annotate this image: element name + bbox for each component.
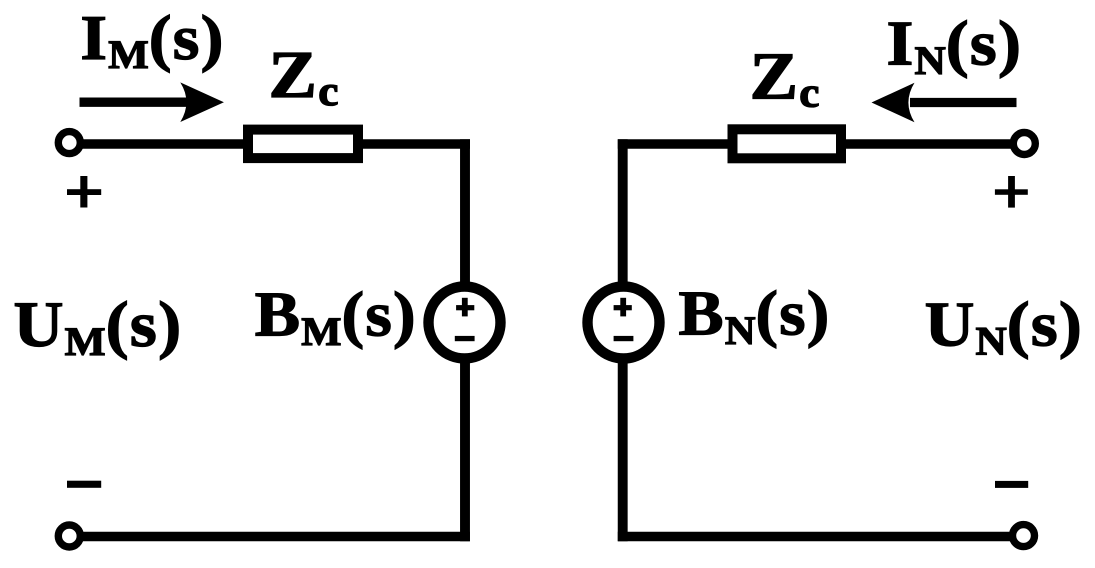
- svg-text:BN(s): BN(s): [679, 278, 831, 352]
- terminal N- (bottom-right open circle): [1013, 525, 1035, 547]
- terminal M- (bottom-left open circle): [58, 525, 80, 547]
- terminal N+ (top-right open circle): [1013, 133, 1035, 155]
- wire: N bottom rail: [618, 532, 1024, 542]
- plus sign at M+ terminal: [67, 176, 101, 208]
- wire: M+ terminal to resistor Zc (top-left horizontal): [69, 139, 253, 149]
- wire: left vertical (corner down through source B_M to bottom rail): [460, 139, 470, 541]
- minus sign at N- terminal: [995, 481, 1028, 488]
- wire: corner to resistor Zc (top-right horizontal left part): [618, 139, 737, 149]
- current arrow I_N(s) (pointing left): [872, 83, 1017, 123]
- resistor Zc (N side): [733, 129, 842, 158]
- voltage source B_N(s): [588, 287, 660, 359]
- current arrow I_M(s) (pointing right): [80, 82, 224, 122]
- plus sign at N+ terminal: [995, 176, 1028, 208]
- wire: resistor Zc to corner node (top-left horizontal right part): [353, 139, 470, 149]
- svg-text:IM(s): IM(s): [80, 3, 224, 77]
- terminal M+ (top-left open circle): [58, 132, 80, 154]
- resistor Zc (M side): [248, 130, 358, 159]
- minus sign at M- terminal: [67, 481, 101, 488]
- svg-text:IN(s): IN(s): [886, 9, 1022, 83]
- wire: right vertical (corner down through source B_N to bottom rail): [618, 139, 628, 541]
- wire: resistor Zc to N+ terminal (top-right horizontal): [837, 139, 1024, 149]
- wire: M bottom rail: [69, 532, 470, 542]
- voltage source B_M(s): [429, 287, 501, 359]
